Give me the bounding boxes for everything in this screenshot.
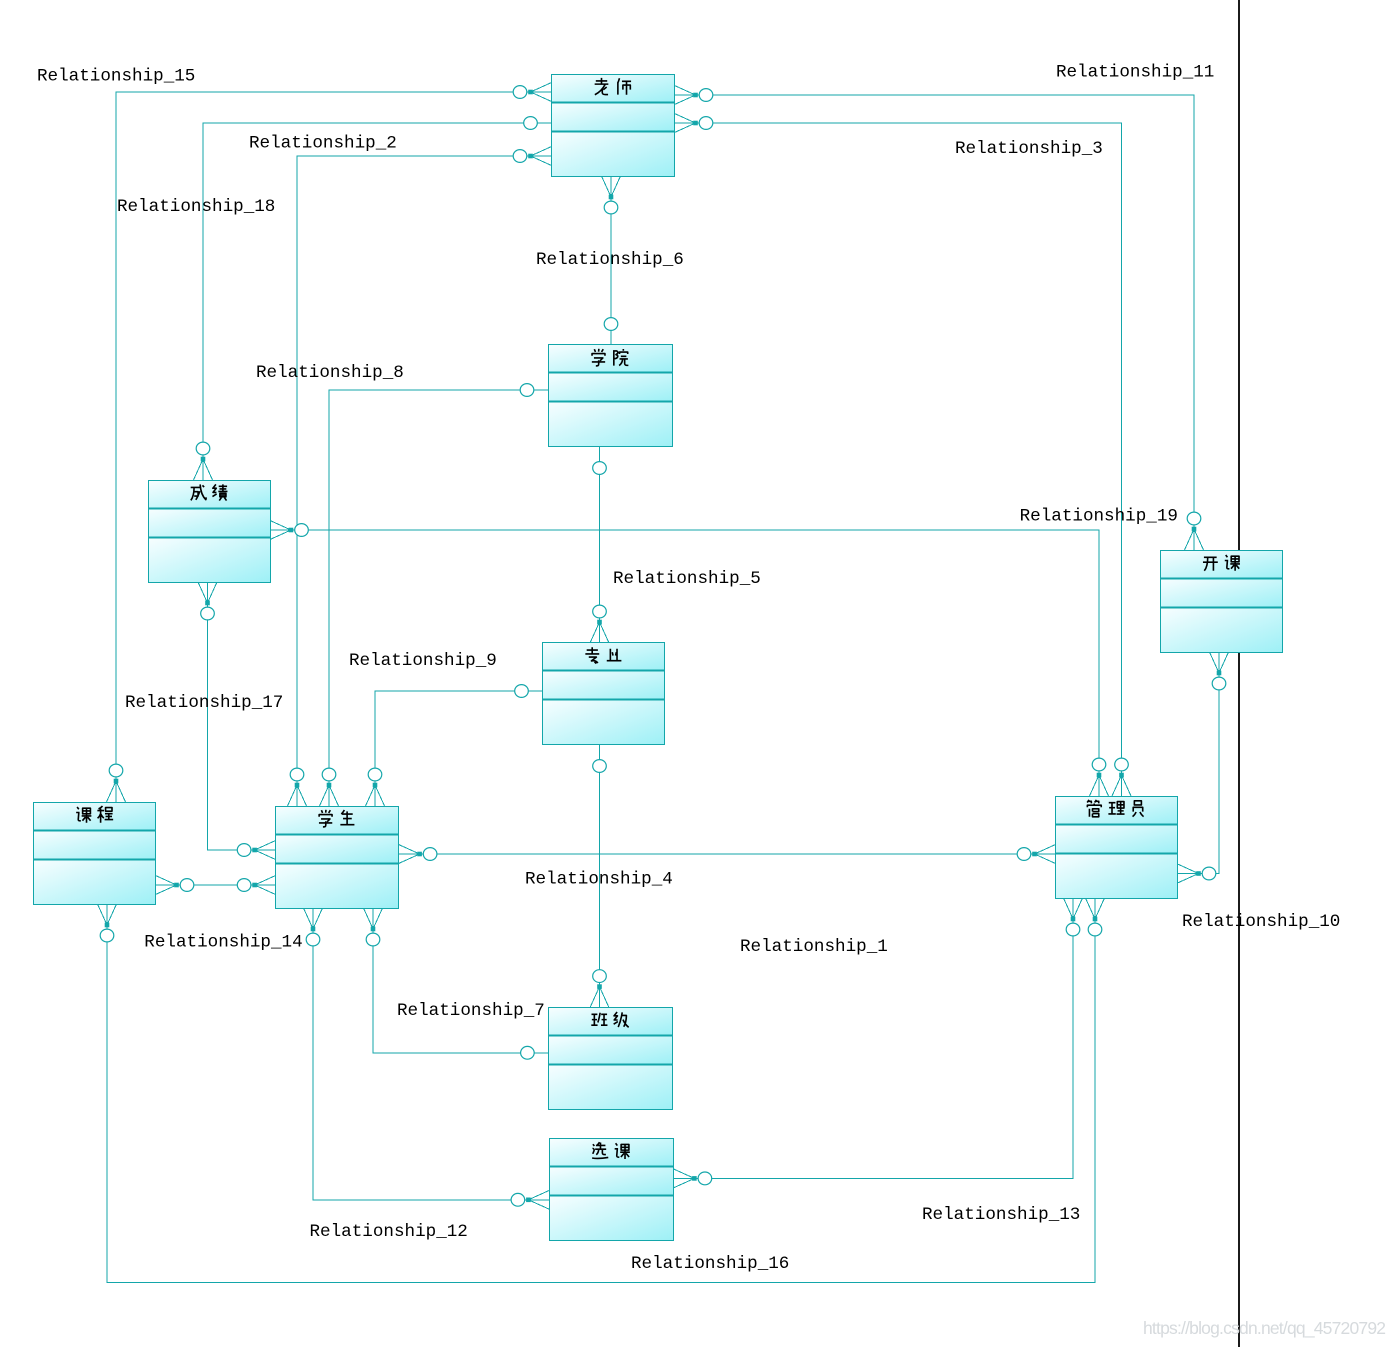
svg-text:Relationship_10: Relationship_10 <box>1182 912 1340 932</box>
svg-text:Relationship_18: Relationship_18 <box>117 197 275 217</box>
svg-text:Relationship_4: Relationship_4 <box>525 869 673 889</box>
svg-text:https://blog.csdn.net/qq_45720: https://blog.csdn.net/qq_45720792 <box>1143 1318 1386 1339</box>
svg-text:Relationship_12: Relationship_12 <box>310 1222 468 1242</box>
svg-text:Relationship_15: Relationship_15 <box>37 67 195 87</box>
svg-text:Relationship_7: Relationship_7 <box>397 1001 545 1021</box>
svg-text:Relationship_1: Relationship_1 <box>740 937 888 957</box>
svg-text:Relationship_9: Relationship_9 <box>349 651 497 671</box>
svg-text:Relationship_13: Relationship_13 <box>922 1205 1080 1225</box>
svg-text:Relationship_2: Relationship_2 <box>249 134 397 154</box>
svg-text:Relationship_8: Relationship_8 <box>256 363 404 383</box>
svg-text:Relationship_5: Relationship_5 <box>613 569 761 589</box>
svg-text:Relationship_3: Relationship_3 <box>955 139 1103 159</box>
svg-text:Relationship_16: Relationship_16 <box>631 1254 789 1274</box>
svg-text:Relationship_11: Relationship_11 <box>1056 63 1214 83</box>
svg-text:Relationship_14: Relationship_14 <box>144 932 302 952</box>
svg-text:Relationship_6: Relationship_6 <box>536 250 684 270</box>
svg-text:Relationship_17: Relationship_17 <box>125 693 283 713</box>
svg-text:Relationship_19: Relationship_19 <box>1020 507 1178 527</box>
